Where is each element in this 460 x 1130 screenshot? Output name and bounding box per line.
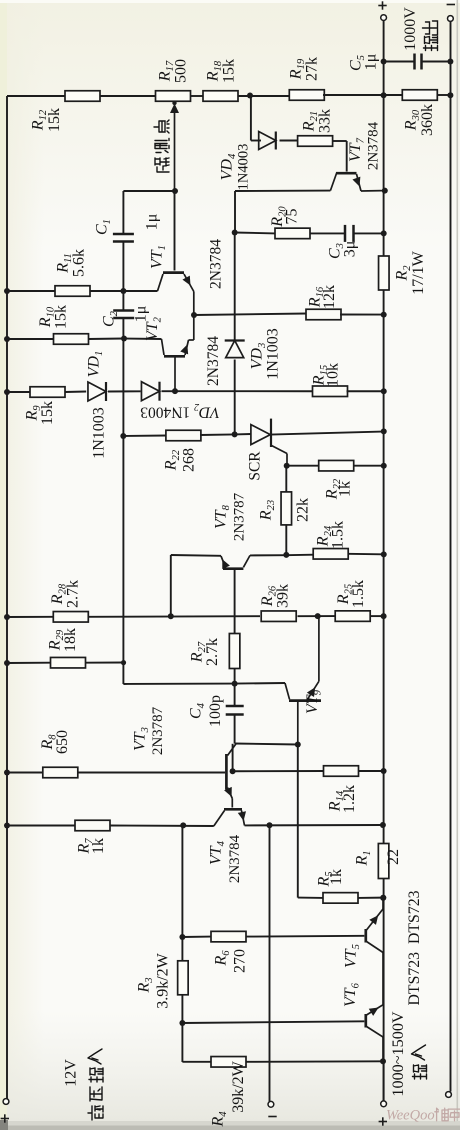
svg-text:2N3784: 2N3784: [366, 121, 382, 170]
svg-text:15k: 15k: [39, 401, 56, 425]
svg-text:12k: 12k: [321, 285, 338, 309]
svg-text:VD2 1N4003: VD2 1N4003: [140, 401, 220, 421]
svg-text:75: 75: [284, 209, 301, 225]
svg-text:1000~1500V: 1000~1500V: [389, 1011, 407, 1097]
svg-text:1.5k: 1.5k: [330, 521, 347, 549]
svg-text:12V: 12V: [63, 1059, 80, 1087]
svg-text:2.7k: 2.7k: [204, 638, 221, 666]
svg-text:1N4003: 1N4003: [236, 144, 252, 191]
svg-text:2.7k: 2.7k: [65, 580, 82, 608]
svg-text:3μ: 3μ: [342, 241, 359, 258]
svg-text:2N3787: 2N3787: [150, 706, 166, 755]
svg-text:270: 270: [232, 949, 249, 973]
svg-text:DTS723 DTS723: DTS723 DTS723: [406, 890, 423, 1005]
svg-text:39k: 39k: [275, 584, 292, 608]
svg-text:2N3784: 2N3784: [208, 239, 225, 289]
svg-text:22: 22: [385, 849, 402, 865]
svg-text:27k: 27k: [304, 57, 321, 81]
svg-text:33k: 33k: [317, 109, 334, 133]
svg-text:39k/2W: 39k/2W: [230, 1060, 247, 1112]
svg-text:1k: 1k: [337, 481, 354, 497]
svg-text:WeeQoo: WeeQoo: [386, 1108, 435, 1124]
svg-text:1μ: 1μ: [144, 214, 161, 231]
svg-text:22k: 22k: [295, 498, 312, 522]
svg-text:1μ: 1μ: [133, 306, 150, 323]
svg-text:5.6k: 5.6k: [71, 249, 88, 277]
svg-text:18k: 18k: [62, 628, 79, 652]
svg-text:1k: 1k: [328, 869, 345, 885]
svg-text:1000V: 1000V: [402, 7, 419, 51]
svg-text:1.2k: 1.2k: [341, 785, 358, 813]
svg-text:2N3784: 2N3784: [205, 336, 222, 386]
svg-text:15k: 15k: [221, 59, 238, 83]
svg-text:3.9k/2W: 3.9k/2W: [155, 952, 172, 1008]
svg-text:500: 500: [173, 59, 190, 83]
svg-text:15k: 15k: [46, 108, 63, 132]
svg-text:10k: 10k: [325, 363, 342, 387]
svg-text:1.5k: 1.5k: [350, 580, 367, 608]
svg-text:1N1003: 1N1003: [265, 328, 282, 380]
svg-text:1μ: 1μ: [363, 54, 380, 71]
svg-text:SCR: SCR: [247, 451, 264, 481]
svg-text:650: 650: [54, 730, 71, 754]
svg-text:1k: 1k: [90, 838, 107, 854]
svg-text:1N1003: 1N1003: [91, 407, 108, 459]
svg-text:15k: 15k: [53, 305, 70, 329]
svg-text:100p: 100p: [207, 695, 224, 727]
svg-text:360k: 360k: [419, 104, 436, 136]
svg-text:2N3784: 2N3784: [227, 834, 243, 883]
svg-text:17/1W: 17/1W: [410, 250, 427, 294]
svg-text:2N3787: 2N3787: [232, 492, 248, 541]
svg-text:268: 268: [181, 448, 198, 472]
